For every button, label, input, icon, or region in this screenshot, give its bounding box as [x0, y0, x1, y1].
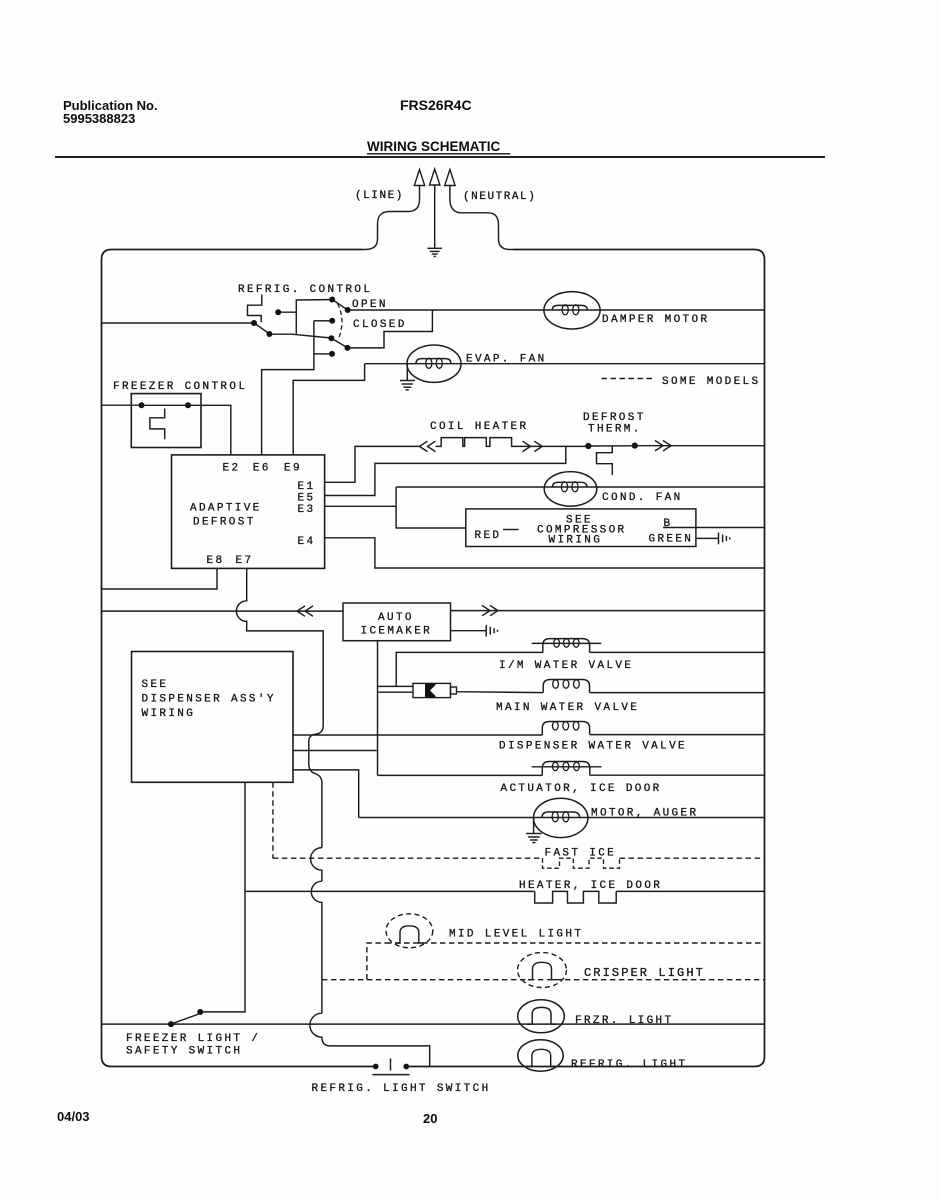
- refrig control lower riser: [262, 321, 314, 455]
- freezer safety switch arm: [171, 1013, 202, 1024]
- wire heater to defrost thermostat: [517, 445, 586, 447]
- svg-text:REFRIG. CONTROL: REFRIG. CONTROL: [238, 284, 372, 296]
- refrig control contact 5: [329, 351, 335, 357]
- wire E7 with hop over icemaker wire: [236, 568, 323, 725]
- some models dashed sample: [602, 378, 655, 380]
- wire contact4 to damper line: [348, 311, 433, 348]
- closed contact: [329, 318, 335, 324]
- compressor B lead: [663, 518, 765, 530]
- IM water valve wire: [396, 652, 764, 686]
- wire border to freezer control: [102, 404, 140, 406]
- coil heater label: [430, 421, 528, 433]
- svg-text:FRS26R4C: FRS26R4C: [400, 97, 472, 113]
- svg-text:ICEMAKER: ICEMAKER: [361, 626, 433, 638]
- outer cabinet border: [102, 250, 765, 1067]
- defrost thermostat label: [583, 412, 646, 436]
- svg-text:WIRING: WIRING: [142, 708, 196, 720]
- refrig control riser to open: [296, 300, 329, 334]
- svg-text:E6: E6: [253, 463, 271, 475]
- switch arm open to common: [332, 300, 347, 310]
- svg-text:DISPENSER ASS'Y: DISPENSER ASS'Y: [142, 694, 276, 706]
- water valve solenoid body: [413, 683, 457, 697]
- auger motor wire: [359, 817, 765, 819]
- icemaker ground wire: [451, 630, 487, 632]
- evap fan motor: [407, 345, 461, 382]
- switch arm contact3 to contact4: [331, 338, 347, 348]
- adaptive defrost control box: [172, 455, 325, 569]
- refrig control contact 1: [251, 320, 257, 326]
- svg-text:FRZR. LIGHT: FRZR. LIGHT: [575, 1015, 673, 1027]
- neutral supply arrow: [445, 170, 513, 250]
- svg-text:E8: E8: [207, 555, 225, 567]
- svg-text:04/03: 04/03: [57, 1109, 90, 1124]
- icemaker right chevrons: [482, 605, 498, 615]
- svg-text:CLOSED: CLOSED: [353, 319, 407, 331]
- svg-text:E7: E7: [236, 555, 254, 567]
- refrig control pivot contact: [275, 309, 281, 315]
- mid level light wire: [367, 943, 765, 980]
- header rule: [55, 156, 825, 158]
- compressor wiring box: [466, 509, 696, 547]
- dispenser water valve coil: [542, 722, 589, 736]
- svg-text:CRISPER LIGHT: CRISPER LIGHT: [584, 966, 705, 980]
- crisper light label: [584, 966, 705, 980]
- freezer light lamp: [518, 1000, 565, 1033]
- icemaker ground: [486, 625, 497, 637]
- auto icemaker text: [361, 612, 433, 638]
- svg-text:RED: RED: [475, 530, 502, 542]
- heater ice door label: [519, 880, 662, 892]
- refrig light lamp: [518, 1040, 563, 1071]
- label (NEUTRAL): [463, 191, 536, 203]
- title WIRING SCHEMATIC: [367, 139, 510, 154]
- coil heater element: [436, 438, 518, 447]
- supply ground arrow: [430, 169, 440, 248]
- some models label: [662, 376, 760, 388]
- svg-text:SOME MODELS: SOME MODELS: [662, 376, 760, 388]
- actuator ice door wire: [378, 774, 765, 776]
- svg-text:E5: E5: [298, 493, 316, 505]
- fast ice label: [545, 848, 617, 860]
- freezer control box: [131, 394, 201, 448]
- svg-text:(NEUTRAL): (NEUTRAL): [463, 191, 536, 203]
- refrig control contact 2: [266, 331, 272, 337]
- refrig light switch label: [312, 1083, 491, 1095]
- defrost thermostat contact right: [632, 443, 638, 449]
- wire switch to dispenser box: [202, 782, 245, 1012]
- wire closed contact to lower riser: [314, 320, 330, 322]
- icemaker supply wire: [102, 610, 344, 612]
- svg-text:MID LEVEL LIGHT: MID LEVEL LIGHT: [449, 929, 583, 941]
- supply ground symbol: [428, 248, 443, 256]
- crisper light wire: [322, 979, 765, 981]
- fast ice dashed wire left: [273, 857, 543, 859]
- svg-text:E1: E1: [298, 481, 316, 493]
- icemaker left chevrons: [297, 606, 313, 616]
- evap fan ground: [400, 364, 415, 390]
- wire contact2 to contact3: [271, 334, 330, 338]
- cond fan motor: [544, 472, 597, 507]
- svg-text:HEATER, ICE DOOR: HEATER, ICE DOOR: [519, 880, 662, 892]
- freezer light label: [575, 1015, 673, 1027]
- svg-text:20: 20: [423, 1111, 437, 1126]
- svg-text:THERM.: THERM.: [588, 424, 642, 436]
- dispenser assembly text: [142, 679, 276, 720]
- svg-text:E9: E9: [284, 463, 302, 475]
- wire pivot to riser: [280, 311, 296, 313]
- svg-text:DEFROST: DEFROST: [583, 412, 646, 424]
- footer date 04/03: [57, 1109, 90, 1124]
- fast ice heater element: [543, 858, 620, 868]
- lights feeder vertical with jogs and hops: [309, 725, 430, 1066]
- icemaker valve feeder: [377, 641, 379, 776]
- svg-text:ACTUATOR, ICE DOOR: ACTUATOR, ICE DOOR: [501, 783, 662, 795]
- auger motor: [534, 798, 588, 837]
- main water valve label: [496, 702, 639, 714]
- dispenser water valve label: [499, 741, 687, 753]
- damper feed contact: [345, 307, 351, 313]
- wire E8 to left border: [102, 568, 218, 589]
- svg-text:FREEZER CONTROL: FREEZER CONTROL: [113, 381, 247, 393]
- open contact: [329, 297, 335, 303]
- compressor green lead: [649, 534, 719, 546]
- svg-text:OPEN: OPEN: [352, 299, 388, 311]
- thermostat right chevrons: [655, 441, 671, 451]
- wire dispenser box to auger motor: [293, 770, 359, 818]
- label (LINE): [355, 190, 404, 202]
- heater right chevrons: [523, 441, 543, 451]
- compressor box text: [537, 515, 627, 547]
- crisper light lamp: [518, 953, 567, 988]
- publication number: [63, 98, 158, 126]
- compressor red lead label: [475, 530, 519, 543]
- wire E5 to heater junction: [325, 446, 566, 495]
- svg-text:SEE: SEE: [142, 679, 169, 691]
- svg-text:E2: E2: [223, 463, 241, 475]
- freezer control contact B: [185, 402, 191, 408]
- svg-text:MOTOR, AUGER: MOTOR, AUGER: [591, 808, 698, 820]
- adaptive defrost pin labels top E2 E6 E9: [223, 463, 302, 475]
- svg-text:5995388823: 5995388823: [63, 111, 135, 126]
- cond fan wire: [396, 486, 764, 488]
- svg-text:DISPENSER WATER VALVE: DISPENSER WATER VALVE: [499, 741, 687, 753]
- svg-text:(LINE): (LINE): [355, 190, 404, 202]
- svg-text:ADAPTIVE: ADAPTIVE: [190, 503, 262, 515]
- auger motor label: [591, 808, 698, 820]
- freezer control label: [113, 381, 247, 393]
- svg-text:I/M WATER VALVE: I/M WATER VALVE: [499, 660, 633, 672]
- svg-text:DEFROST: DEFROST: [193, 517, 256, 529]
- refrig light switch contact right: [403, 1064, 409, 1070]
- wire dispenser box to actuator: [293, 750, 377, 752]
- evap fan wire: [365, 363, 765, 365]
- main water valve wire: [457, 691, 765, 694]
- actuator ice door label: [501, 783, 662, 795]
- defrost thermostat contact left: [585, 443, 591, 449]
- adaptive defrost name: [190, 503, 262, 529]
- refrig control switch arm 1: [254, 323, 270, 334]
- heater ice door wire: [246, 890, 765, 892]
- IM water valve label: [499, 660, 633, 672]
- svg-text:SAFETY SWITCH: SAFETY SWITCH: [126, 1046, 242, 1058]
- water valve solenoid feed wires: [378, 686, 414, 692]
- wire left border to refrig control: [102, 322, 252, 324]
- freezer safety switch contact left: [168, 1021, 174, 1027]
- freezer control contact A: [139, 402, 145, 408]
- mid level light lamp: [386, 914, 433, 948]
- svg-text:WIRING: WIRING: [549, 535, 603, 547]
- refrig control label leader step: [248, 295, 262, 323]
- svg-text:GREEN: GREEN: [649, 534, 694, 546]
- wire E1 riser to heater: [325, 446, 419, 482]
- damper motor wire: [350, 309, 765, 311]
- svg-text:AUTO: AUTO: [378, 612, 414, 624]
- icemaker output wire: [451, 610, 765, 612]
- wire between thermostat contacts: [588, 445, 634, 447]
- refrig light switch contact left: [373, 1064, 379, 1070]
- wire E4 to right border: [325, 538, 765, 568]
- defrost thermostat bimetal step: [597, 446, 613, 475]
- svg-text:E4: E4: [298, 536, 316, 548]
- fast ice dashed wire right: [620, 857, 765, 859]
- freezer control thermostat step: [150, 409, 165, 440]
- svg-text:COND. FAN: COND. FAN: [602, 492, 683, 504]
- svg-text:EVAP. FAN: EVAP. FAN: [466, 354, 547, 366]
- refrig light label: [571, 1059, 687, 1071]
- freezer safety switch contact right: [197, 1009, 203, 1015]
- svg-text:WIRING SCHEMATIC: WIRING SCHEMATIC: [367, 139, 500, 154]
- freezer light wire: [102, 1023, 765, 1025]
- damper motor label: [602, 314, 709, 326]
- model number FRS26R4C: [400, 97, 472, 113]
- open label: [352, 299, 388, 311]
- svg-text:FAST ICE: FAST ICE: [545, 848, 617, 860]
- svg-text:DAMPER MOTOR: DAMPER MOTOR: [602, 314, 709, 326]
- svg-text:MAIN WATER VALVE: MAIN WATER VALVE: [496, 702, 639, 714]
- svg-text:E3: E3: [298, 504, 316, 516]
- wire riser E9 to evap fan: [293, 364, 364, 455]
- main water valve coil: [543, 680, 589, 693]
- svg-text:COIL HEATER: COIL HEATER: [430, 421, 528, 433]
- damper motor M1: [544, 292, 600, 329]
- adaptive defrost pin labels bottom E8 E7: [207, 555, 254, 567]
- adaptive defrost pin labels right: [298, 481, 316, 548]
- refrig control contact 3: [328, 335, 334, 341]
- svg-text:REFRIG. LIGHT: REFRIG. LIGHT: [571, 1059, 687, 1071]
- IM water valve coil: [532, 639, 602, 653]
- refrig light switch bar: [372, 1074, 409, 1076]
- heater left chevrons: [420, 441, 436, 451]
- cond fan label: [602, 492, 683, 504]
- refrig control label: [238, 284, 372, 296]
- wire contact5 to lower riser: [314, 353, 330, 355]
- wire thermostat to right border: [637, 445, 765, 447]
- auto icemaker box: [343, 603, 451, 641]
- refrig control contact 4: [345, 345, 351, 351]
- wire E3 to cond fan junction: [325, 505, 397, 507]
- refrig control rotary arc: [338, 304, 343, 339]
- auger motor ground: [526, 818, 542, 843]
- svg-text:FREEZER LIGHT /: FREEZER LIGHT /: [126, 1033, 260, 1045]
- heater ice door element: [535, 891, 617, 903]
- cond fan junction riser: [396, 487, 466, 528]
- evap fan label: [466, 354, 547, 366]
- wire between freezer control contacts: [142, 404, 189, 406]
- closed label: [353, 319, 407, 331]
- actuator ice door coil: [532, 762, 602, 776]
- line supply arrow: [362, 170, 425, 250]
- svg-text:REFRIG. LIGHT SWITCH: REFRIG. LIGHT SWITCH: [312, 1083, 491, 1095]
- dispenser assembly box: [132, 652, 294, 783]
- dispenser water valve wire: [293, 734, 765, 736]
- footer page number 20: [423, 1111, 437, 1126]
- freezer light safety switch label: [126, 1033, 260, 1058]
- fast ice feeder from dispenser box: [272, 782, 274, 858]
- refrig light switch plunger: [390, 1059, 392, 1071]
- wire freezer control to E2: [188, 405, 231, 455]
- compressor ground: [719, 533, 730, 545]
- mid level light label: [449, 929, 583, 941]
